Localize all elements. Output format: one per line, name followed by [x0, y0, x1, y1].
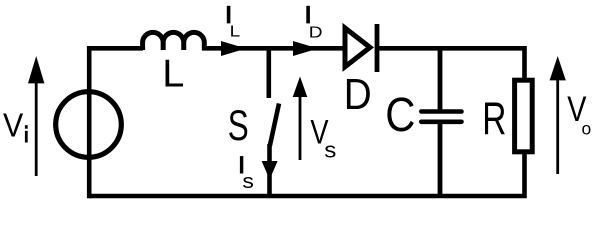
label I_D: [306, 6, 310, 24]
voltage arrow V_s: [293, 77, 308, 161]
inductor L1: [143, 32, 205, 50]
wire: switch bottom lead: [267, 144, 272, 196]
svg-text:R: R: [482, 92, 506, 145]
voltage arrow V_o: [550, 56, 566, 174]
diode D1: [345, 24, 377, 72]
svg-text:D: D: [309, 23, 323, 41]
capacitor C1: [421, 112, 461, 122]
svg-text:s: s: [324, 138, 336, 163]
switch S1 blade: [270, 104, 279, 147]
wire: capacitor top lead: [438, 46, 443, 110]
resistor R1: [515, 80, 533, 152]
voltage arrow V_i: [28, 56, 44, 176]
wire: left branch and top rail to inductor: [89, 48, 143, 198]
wire: capacitor bottom lead: [438, 122, 443, 196]
label I_S: [240, 156, 243, 173]
current arrow I_D: [293, 41, 318, 56]
wire: inductor to diode: [202, 46, 343, 51]
voltage source U1: [56, 92, 122, 158]
wire: switch top stub: [266, 46, 271, 98]
svg-text:s: s: [242, 169, 254, 192]
label I_L: [227, 6, 231, 24]
svg-text:L: L: [162, 52, 184, 96]
svg-text:C: C: [385, 87, 415, 141]
current arrow I_L: [221, 41, 246, 56]
svg-text:S: S: [228, 101, 249, 149]
svg-text:V: V: [3, 106, 24, 144]
wire: diode to top-right corner down to resistor: [379, 48, 525, 80]
svg-text:L: L: [230, 22, 241, 40]
wire: resistor to bottom rail back to source: [89, 152, 524, 196]
svg-text:D: D: [344, 70, 372, 118]
svg-text:o: o: [582, 118, 592, 138]
current arrow I_S: [262, 161, 278, 180]
